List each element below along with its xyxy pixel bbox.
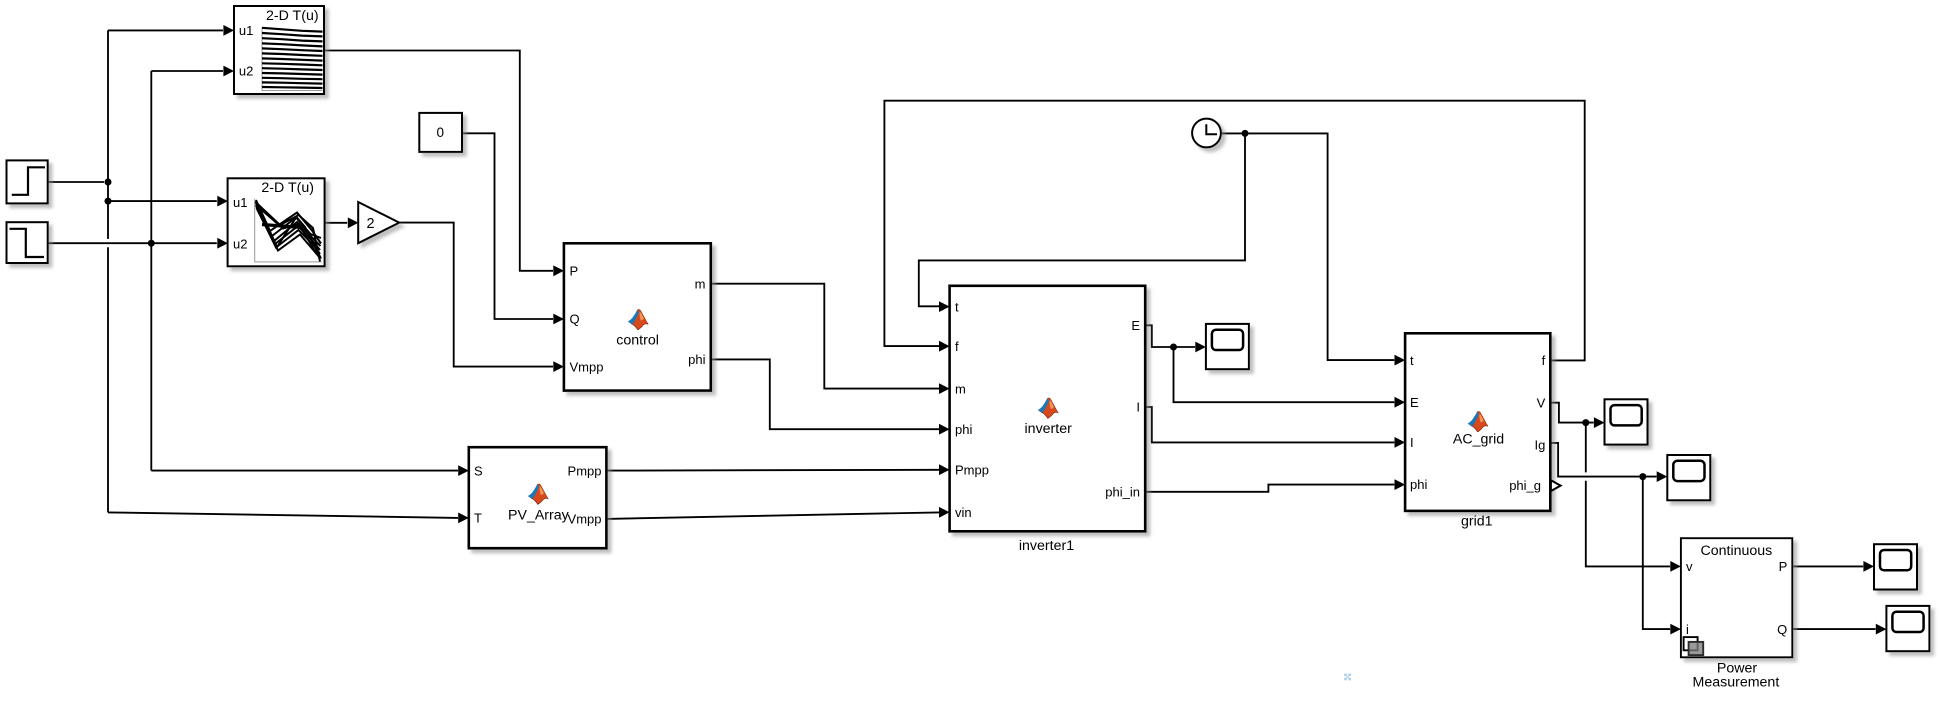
svg-text:phi: phi [688,352,705,367]
svg-text:T: T [474,511,482,526]
svg-text:phi_g: phi_g [1509,478,1541,493]
svg-text:Q: Q [1777,622,1787,637]
svg-text:Vmpp: Vmpp [568,512,602,527]
svg-text:Ig: Ig [1534,437,1545,452]
svg-text:I: I [1410,435,1414,450]
svg-text:inverter: inverter [1025,421,1073,437]
svg-text:Continuous: Continuous [1701,543,1773,559]
svg-text:AC_grid: AC_grid [1453,432,1504,448]
svg-text:P: P [1779,559,1788,574]
svg-text:grid1: grid1 [1461,514,1493,530]
svg-text:phi: phi [1410,477,1427,492]
svg-text:u1: u1 [233,195,247,210]
svg-text:vin: vin [955,505,972,520]
svg-text:E: E [1131,318,1140,333]
svg-text:0: 0 [437,125,445,140]
svg-text:i: i [1686,622,1689,637]
svg-text:E: E [1410,395,1419,410]
svg-text:S: S [474,463,483,478]
svg-text:Vmpp: Vmpp [570,359,604,374]
svg-text:u1: u1 [239,23,253,38]
svg-text:Q: Q [570,312,580,327]
svg-text:u2: u2 [233,236,247,251]
svg-text:I: I [1136,400,1140,415]
svg-text:control: control [616,332,659,348]
svg-text:2-D T(u): 2-D T(u) [266,8,319,24]
svg-text:m: m [955,381,966,396]
svg-text:v: v [1686,559,1693,574]
svg-text:Measurement: Measurement [1693,674,1780,690]
svg-text:f: f [955,339,959,354]
svg-text:Pmpp: Pmpp [568,463,602,478]
svg-text:phi: phi [955,422,972,437]
svg-text:t: t [955,299,959,314]
svg-text:u2: u2 [239,64,253,79]
svg-text:phi_in: phi_in [1105,485,1140,500]
svg-text:PV_Array: PV_Array [508,507,570,523]
svg-text:P: P [570,264,579,279]
svg-text:f: f [1542,353,1546,368]
svg-text:2-D T(u): 2-D T(u) [261,180,314,196]
svg-text:t: t [1410,353,1414,368]
svg-text:Pmpp: Pmpp [955,462,989,477]
svg-text:2: 2 [366,216,374,232]
svg-text:inverter1: inverter1 [1019,538,1074,554]
svg-text:m: m [695,276,706,291]
svg-text:V: V [1537,395,1546,410]
